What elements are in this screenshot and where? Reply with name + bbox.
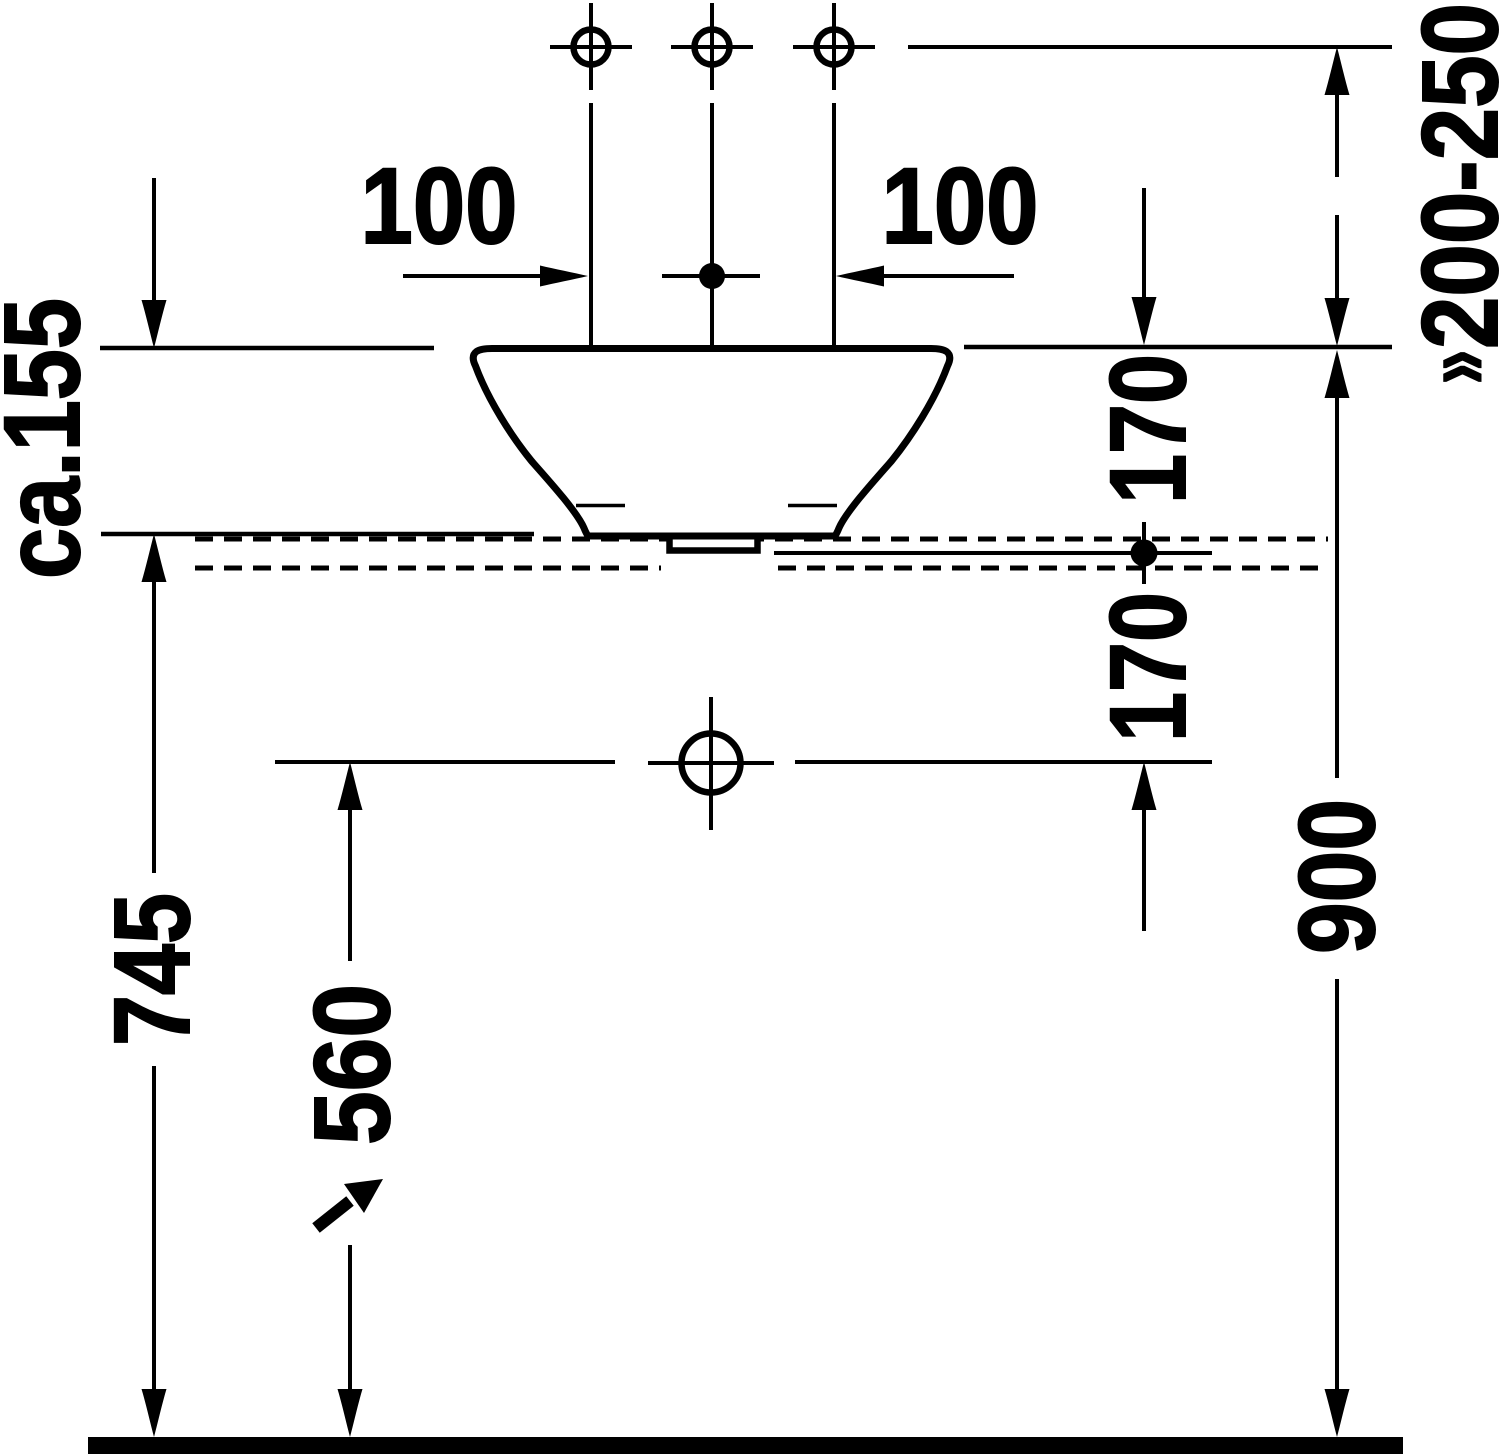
svg-text:170: 170	[1087, 592, 1208, 742]
svg-text:170: 170	[1087, 354, 1208, 504]
svg-text:560: 560	[291, 984, 412, 1145]
svg-text:100: 100	[882, 145, 1039, 266]
svg-text:»: »	[1403, 350, 1500, 384]
svg-text:ca.155: ca.155	[0, 298, 102, 579]
svg-text:200-250: 200-250	[1399, 3, 1500, 349]
svg-text:100: 100	[361, 145, 518, 266]
svg-text:900: 900	[1276, 799, 1397, 954]
svg-text:745: 745	[91, 893, 212, 1046]
